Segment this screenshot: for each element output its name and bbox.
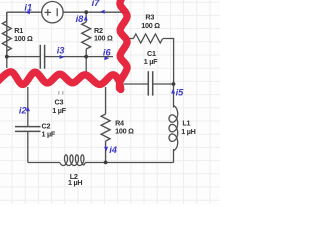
svg-text:i5: i5 bbox=[176, 87, 185, 97]
svg-text:i4: i4 bbox=[109, 145, 118, 155]
svg-text:i3: i3 bbox=[57, 46, 66, 56]
svg-text:100 Ω: 100 Ω bbox=[14, 34, 33, 43]
svg-text:1 µH: 1 µH bbox=[68, 178, 82, 187]
svg-text:100 Ω: 100 Ω bbox=[115, 126, 134, 135]
svg-text:i8: i8 bbox=[76, 14, 85, 24]
svg-text:1 µF: 1 µF bbox=[52, 106, 66, 115]
svg-text:1 µH: 1 µH bbox=[181, 127, 195, 136]
svg-text:i6: i6 bbox=[103, 47, 112, 57]
svg-text:1 µF: 1 µF bbox=[42, 130, 56, 139]
svg-text:i2: i2 bbox=[19, 105, 28, 115]
svg-text:i1: i1 bbox=[24, 2, 32, 12]
svg-text:100 Ω: 100 Ω bbox=[94, 33, 113, 42]
svg-text:1 µF: 1 µF bbox=[144, 57, 158, 66]
svg-text:100 Ω: 100 Ω bbox=[141, 21, 160, 30]
svg-text:i7: i7 bbox=[92, 0, 101, 8]
